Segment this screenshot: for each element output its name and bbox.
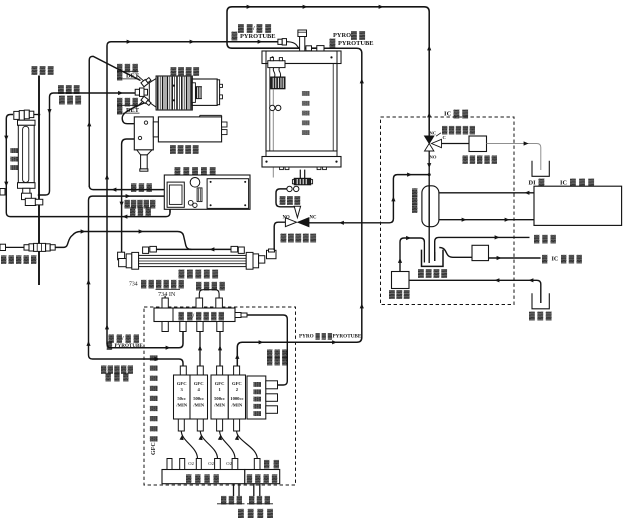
wire: top loop O2 line from pyrotube tee to IC module (rounded path) bbox=[227, 7, 429, 130]
svg-text:PYROTUBE: PYROTUBE bbox=[338, 40, 374, 47]
wire: metering pump to scrubber bottle bbox=[400, 238, 424, 272]
rotameter loop wire: left side down to ozone vent line y=216.6 bbox=[6, 115, 170, 217]
svg-text:▓▓▓▓▓: ▓▓▓▓▓ bbox=[1, 255, 37, 265]
rotameter bottom fitting to rear panel line bbox=[23, 188, 30, 193]
wire: dryer shell purge line y=249.4 bbox=[156, 248, 231, 250]
manifold bottom ports bbox=[162, 322, 168, 332]
svg-text:▓▓▓: ▓▓▓ bbox=[130, 207, 152, 217]
wire: DI pump to DI water bottle (gray) bbox=[487, 144, 541, 171]
IC module dashed enclosure bbox=[381, 117, 515, 305]
DI water pump box bbox=[469, 136, 487, 152]
svg-text:▓▓▓▓▓: ▓▓▓▓▓ bbox=[463, 155, 498, 165]
manifold right outlet fitting bbox=[235, 313, 241, 318]
membrane dryer left tube elbow bbox=[118, 252, 125, 260]
svg-text:O2: O2 bbox=[226, 461, 232, 466]
svg-text:O2: O2 bbox=[188, 461, 194, 466]
membrane dryer left cap rings bbox=[126, 254, 132, 268]
small port marker at left edge (exhaust) bbox=[0, 189, 5, 196]
svg-text:500cc: 500cc bbox=[214, 396, 225, 401]
svg-text:▓▓▓: ▓▓▓ bbox=[131, 182, 153, 192]
furnace inner sample tube (gray) bbox=[272, 89, 274, 105]
N detector rear grill bbox=[196, 87, 202, 99]
wire: valve NO port down to dryer right elbow bbox=[274, 222, 285, 250]
svg-text:NC: NC bbox=[310, 216, 317, 221]
rear panel line (thick vertical x=39) bbox=[38, 76, 40, 286]
manifold top port 1 (734 IN) bbox=[162, 298, 168, 308]
sample outlet union nuts bbox=[287, 186, 292, 191]
wire: S-det mid port down to membrane dryer left elbow bbox=[122, 139, 135, 252]
injector left inlet nut bbox=[278, 39, 282, 44]
svg-text:/: / bbox=[121, 336, 124, 342]
wire: ozone line up from ozone generator to N-det top fitting (diagonal) bbox=[89, 56, 140, 187]
svg-text:▓▓▓▓: ▓▓▓▓ bbox=[196, 311, 225, 321]
svg-text:▓▓▓▓▓: ▓▓▓▓▓ bbox=[281, 233, 317, 243]
svg-text:NO: NO bbox=[283, 216, 290, 221]
wire: N-det bottom fitting to S-det top port bbox=[122, 103, 144, 124]
svg-text:C: C bbox=[443, 135, 446, 140]
IC cooler box bbox=[534, 186, 622, 225]
svg-text:GFC: GFC bbox=[151, 442, 157, 455]
wire: rotameter top to rear panel line bbox=[34, 114, 39, 116]
wire: sample out to gas solenoid valve bbox=[276, 189, 297, 207]
svg-text:▓▓▓▓: ▓▓▓▓ bbox=[171, 66, 200, 76]
svg-text:50cc: 50cc bbox=[177, 396, 186, 401]
leader line from sample-in label to bottom fitting bbox=[136, 101, 143, 108]
svg-text:▓: ▓ bbox=[412, 203, 418, 213]
N detector finned drum bbox=[156, 76, 192, 110]
membrane dryer right tube elbow riser bbox=[259, 256, 265, 263]
svg-text:▓▓▓▓▓▓: ▓▓▓▓▓▓ bbox=[141, 279, 185, 289]
wire: system inlet to filter bbox=[6, 246, 25, 248]
svg-text:734: 734 bbox=[129, 282, 138, 288]
pyrotube injector tube bbox=[300, 37, 305, 52]
svg-text:GFC: GFC bbox=[194, 381, 204, 386]
manifold top ports 2-3 with argon loop bbox=[196, 298, 203, 308]
furnace top plate bbox=[262, 51, 341, 64]
furnace striped connector block bbox=[271, 77, 285, 89]
label: 734 IN with overline bbox=[156, 288, 181, 290]
svg-text:▓: ▓ bbox=[330, 38, 336, 48]
svg-text:NO: NO bbox=[430, 155, 437, 160]
furnace sample outlet tube bbox=[299, 170, 301, 179]
svg-text:/MIN: /MIN bbox=[213, 403, 225, 408]
GFC 3 flow controller bbox=[174, 375, 191, 419]
svg-text:▓▓▓: ▓▓▓ bbox=[10, 148, 18, 170]
wire: PYRO O2 from GFC2 up right side x=362 to injector right fitting bbox=[237, 48, 361, 366]
gas solenoid valve left triangle (NO) bbox=[285, 218, 296, 227]
membrane dryer right shell-port elbow fitting bbox=[231, 246, 238, 252]
furnace inlet manifold block (left) bbox=[268, 61, 285, 68]
furnace body bbox=[266, 64, 337, 152]
liquid solenoid valve: side triangle to pump bbox=[432, 139, 442, 147]
svg-text:PYROTUBE: PYROTUBE bbox=[115, 343, 144, 349]
svg-text:▓▓▓: ▓▓▓ bbox=[59, 95, 81, 105]
svg-text:/MIN: /MIN bbox=[192, 403, 204, 408]
svg-text:▓▓▓▓▓▓▓▓▓: ▓▓▓▓▓▓▓▓▓ bbox=[150, 355, 158, 442]
wire: condenser to cooler lower (supply) bbox=[439, 219, 534, 221]
oxygen manifold (lower) bbox=[245, 470, 280, 484]
svg-text:NC: NC bbox=[430, 131, 437, 136]
wire: manifold port4 down to GFC1 bbox=[219, 332, 221, 367]
injector right fittings on pyro O2 line bbox=[306, 46, 312, 51]
furnace inlet squiggle tubes bbox=[273, 68, 275, 77]
wire: system air filter to dryer shell line (S-curve up to y=231.5) bbox=[55, 232, 191, 250]
ozone generator transformer (double box) bbox=[167, 182, 184, 207]
leader line from ozone-in label to top fitting bbox=[138, 76, 145, 82]
svg-text:IC: IC bbox=[552, 256, 559, 263]
S detector cylinder bbox=[158, 117, 221, 142]
S detector funnel and PMT tube bbox=[137, 150, 152, 155]
wire: detector air inlet from rear panel line up to N detector bbox=[39, 93, 136, 195]
condenser capsule bbox=[422, 186, 439, 227]
svg-text:▓▓▓: ▓▓▓ bbox=[389, 290, 410, 300]
wire: injector inlet tube curl bbox=[287, 42, 300, 49]
svg-text:PYRO: PYRO bbox=[333, 32, 351, 39]
svg-text:/: / bbox=[252, 25, 255, 32]
N detector bottom-left angled fitting bbox=[141, 96, 152, 106]
wires: GFC bottoms to lower manifold ports (S curves) bbox=[181, 431, 197, 459]
ozone generator HV compartment bbox=[207, 179, 249, 209]
membrane dryer left shell-port elbow fitting bbox=[143, 247, 149, 253]
lower manifold top ports bbox=[167, 459, 172, 470]
gas box dashed enclosure bbox=[144, 307, 296, 485]
gas solenoid valve (3-way): top triangle bbox=[294, 206, 300, 217]
svg-text:GFC: GFC bbox=[177, 381, 187, 386]
rotameter body tube bbox=[18, 120, 36, 125]
S detector PMT block bbox=[134, 117, 153, 150]
pyrotube injector cap bbox=[298, 30, 307, 37]
svg-text:▓▓▓: ▓▓▓ bbox=[280, 195, 301, 205]
ozone generator small circles bbox=[188, 200, 193, 205]
svg-text:PYRO: PYRO bbox=[299, 334, 314, 340]
svg-text:500cc: 500cc bbox=[193, 396, 204, 401]
metering pump box bbox=[392, 272, 410, 289]
S detector right ports bbox=[222, 122, 227, 127]
pressure transducer right ports bbox=[266, 381, 278, 389]
svg-text:GFC: GFC bbox=[232, 381, 242, 386]
wire: scrubber to IC transfer pump bbox=[439, 248, 472, 258]
svg-text:1000cc: 1000cc bbox=[230, 396, 243, 401]
furnace bottom plates bbox=[266, 151, 337, 157]
ozone generator enclosure bbox=[164, 175, 250, 209]
wire: absorption liquid to metering pump bbox=[409, 280, 541, 303]
scrubber bottle dip tubes bbox=[423, 242, 425, 263]
svg-text:734 IN: 734 IN bbox=[158, 291, 176, 298]
gas solenoid valve right triangle (NC, filled) bbox=[298, 218, 309, 227]
svg-text:▓▓▓▓: ▓▓▓▓ bbox=[170, 144, 199, 154]
furnace inner tube union circles bbox=[270, 105, 275, 110]
system air inlet marker at left edge bbox=[0, 244, 6, 250]
wire: ozone generator bottom port to vent line bbox=[169, 209, 171, 212]
pressure transducer box bbox=[247, 376, 266, 419]
svg-text:▓▓▓: ▓▓▓ bbox=[32, 66, 54, 76]
membrane dryer right cap rings bbox=[246, 252, 253, 269]
svg-text:DI: DI bbox=[529, 180, 537, 187]
GFC 4 flow controller bbox=[190, 375, 208, 419]
junction dot rear panel at air tap bbox=[38, 194, 41, 197]
svg-text:PYROTUBE: PYROTUBE bbox=[240, 33, 276, 40]
GFC bottom stubs bbox=[178, 419, 184, 431]
wire: liquid valve to DI pump bbox=[442, 143, 470, 145]
svg-text:▓▓▓: ▓▓▓ bbox=[106, 372, 130, 382]
rotameter top elbow fitting bbox=[14, 111, 19, 119]
liquid solenoid valve: bottom triangle bbox=[425, 144, 434, 152]
svg-text:IC: IC bbox=[444, 111, 452, 118]
wire: valve NC port to condenser riser and IC center line bbox=[309, 175, 429, 223]
IC center line from top loop through module to scrubber bottle bbox=[428, 130, 430, 136]
ozone generator fan circle bbox=[190, 178, 200, 188]
svg-text:▓▓▓: ▓▓▓ bbox=[316, 333, 333, 340]
S detector neck bbox=[153, 122, 158, 137]
svg-text:/: / bbox=[192, 313, 195, 320]
svg-text:▓▓▓▓: ▓▓▓▓ bbox=[418, 269, 447, 279]
svg-text:▓▓▓: ▓▓▓ bbox=[561, 254, 583, 264]
svg-text:▓: ▓ bbox=[542, 254, 548, 264]
liquid solenoid valve: top triangle (filled) bbox=[425, 136, 434, 144]
N detector end plate and stubs bbox=[217, 80, 219, 105]
GFC 1 flow controller bbox=[211, 375, 228, 419]
svg-text:GFC: GFC bbox=[215, 381, 225, 386]
GFC top stubs bbox=[180, 366, 186, 375]
absorption liquid bottle bbox=[532, 293, 549, 309]
GFC 2 flow controller bbox=[228, 375, 245, 419]
gas box rotated GFC label bbox=[150, 355, 158, 455]
wire: transfer pump to IC detector bbox=[489, 257, 541, 259]
svg-text:▓▓▓▓▓: ▓▓▓▓▓ bbox=[442, 125, 476, 135]
svg-text:▓: ▓ bbox=[107, 341, 113, 351]
svg-text:O2: O2 bbox=[208, 461, 214, 466]
wire: manifold port3 down to GFC4 bbox=[199, 332, 201, 367]
svg-text:▓▓▓: ▓▓▓ bbox=[267, 356, 288, 366]
svg-text:▓: ▓ bbox=[232, 31, 238, 41]
argon manifold (lower) bbox=[162, 470, 245, 484]
sample outlet flanged fitting (striped) bbox=[294, 178, 311, 185]
ozone generator striped cell bbox=[197, 188, 202, 202]
inline filter on system air inlet bbox=[24, 245, 29, 250]
N detector top-left angled fitting bbox=[141, 77, 152, 87]
N detector rear cylinder bbox=[192, 79, 217, 105]
O2/Ar manifold bbox=[154, 308, 235, 322]
svg-text:▓▓▓: ▓▓▓ bbox=[534, 234, 557, 244]
wire: O2/Ar supply line y=41.5 from x=107 riser to injector left nut bbox=[107, 42, 285, 348]
membrane dryer tube bundle bbox=[139, 255, 247, 266]
N detector middle-left fitting (air inlet) bbox=[135, 89, 139, 95]
svg-text:▓▓▓: ▓▓▓ bbox=[58, 85, 80, 95]
furnace feet bbox=[280, 167, 284, 170]
IC transfer pump box bbox=[472, 245, 489, 260]
DI water bottle bbox=[532, 161, 549, 177]
wire: vent line from scrubber bottle bbox=[435, 237, 530, 261]
svg-text:▓▓▓: ▓▓▓ bbox=[529, 311, 552, 321]
svg-text:PYROTUBE: PYROTUBE bbox=[333, 334, 362, 340]
wire: O2 supply from GFC3 to ozone generator bbox=[89, 196, 184, 366]
oxygen inlet lines bbox=[253, 484, 255, 496]
wire: condenser to cooler upper (return) bbox=[439, 192, 534, 194]
wire: manifold outlet to pressure transducer bbox=[247, 315, 287, 385]
svg-text:IC: IC bbox=[560, 180, 567, 187]
N detector left cone bbox=[149, 79, 156, 108]
argon inlet lines bbox=[233, 484, 235, 496]
svg-text:/MIN: /MIN bbox=[175, 403, 187, 408]
wire: ozone out from generator to riser x=89.25 bbox=[89, 186, 164, 190]
svg-text:/MIN: /MIN bbox=[231, 403, 243, 408]
scrubber bottle (beaker) bbox=[422, 250, 444, 267]
